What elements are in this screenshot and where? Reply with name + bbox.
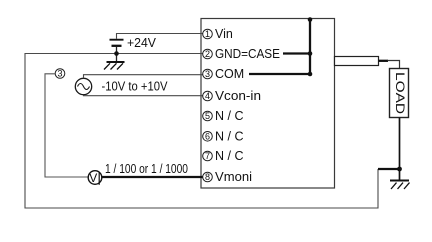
- pin 2: [203, 49, 213, 59]
- svg-text:6: 6: [205, 132, 210, 142]
- svg-text:3: 3: [57, 69, 62, 79]
- svg-text:2: 2: [205, 49, 210, 59]
- battery +24V top plate: [110, 39, 124, 41]
- battery negative stub wire: [116, 47, 118, 63]
- AC source G1: [75, 78, 91, 94]
- svg-text:7: 7: [205, 151, 210, 161]
- cable end stub (thick): [379, 60, 389, 62]
- svg-text:N / C: N / C: [215, 149, 243, 163]
- wire pin2 GND=CASE long run: [25, 54, 378, 209]
- svg-text:5: 5: [205, 111, 210, 121]
- chassis ground under battery: [104, 62, 125, 70]
- pin 7: [203, 151, 213, 161]
- pin 3: [203, 69, 213, 79]
- svg-text:GND=CASE: GND=CASE: [215, 47, 280, 61]
- svg-text:+24V: +24V: [127, 36, 157, 50]
- main unit box U1: [201, 19, 335, 189]
- wire voltmeter to pin8 Vmoni (thick): [102, 176, 203, 178]
- chassis ground near LOAD: [390, 181, 410, 190]
- pin 6: [203, 132, 213, 142]
- wire stub to LOAD top: [388, 61, 400, 69]
- svg-text:V: V: [89, 171, 97, 185]
- pin 5: [203, 111, 213, 121]
- battery +24V bottom plate: [112, 45, 122, 47]
- svg-text:LOAD: LOAD: [393, 72, 405, 114]
- svg-text:8: 8: [205, 172, 210, 182]
- thick wire return to ground node: [378, 168, 401, 170]
- internal case vertical wire (thick): [309, 19, 311, 74]
- wire AC bottom to pin4 Vcon-in: [84, 95, 204, 96]
- wire pin1 from battery to Vin: [117, 34, 204, 39]
- wire node3 to voltmeter: [45, 74, 88, 177]
- node 3 circled label: [55, 69, 65, 79]
- junction dot com/case: [308, 72, 313, 77]
- junction dot gnd/case: [308, 51, 313, 56]
- output cable rectangle: [335, 57, 379, 66]
- voltmeter VM: [88, 171, 102, 185]
- svg-text:4: 4: [205, 91, 210, 101]
- LOAD box: [390, 69, 409, 118]
- pin 1: [203, 29, 213, 39]
- wire AC top to pin3 COM: [84, 75, 204, 79]
- svg-text:N / C: N / C: [215, 109, 243, 123]
- pin 8: [203, 172, 213, 182]
- internal COM wire (thick): [249, 73, 310, 75]
- junction dot case top: [308, 17, 313, 22]
- junction dot battery/gnd wire: [114, 51, 119, 56]
- svg-text:-10V to +10V: -10V to +10V: [102, 80, 169, 94]
- junction dot load/ground: [397, 167, 402, 172]
- svg-text:Vin: Vin: [215, 27, 233, 41]
- svg-text:Vmoni: Vmoni: [215, 170, 252, 184]
- svg-text:Vcon-in: Vcon-in: [215, 89, 261, 103]
- internal GND=CASE wire (thick): [283, 52, 310, 54]
- svg-text:3: 3: [205, 69, 210, 79]
- svg-text:1 / 100 or 1 / 1000: 1 / 100 or 1 / 1000: [105, 162, 188, 176]
- wire LOAD bottom to ground node: [399, 118, 401, 181]
- svg-text:COM: COM: [215, 67, 244, 81]
- svg-text:N / C: N / C: [215, 130, 243, 144]
- pin 4: [203, 91, 213, 101]
- svg-text:1: 1: [205, 29, 210, 39]
